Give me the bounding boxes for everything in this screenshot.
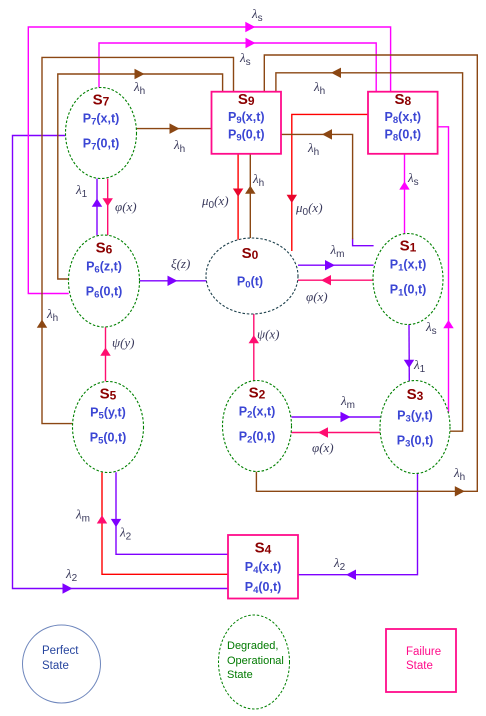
wire S1 to S9 (lambda h) brown riser bbox=[281, 134, 353, 239]
svg-text:φ(x): φ(x) bbox=[115, 199, 137, 214]
svg-text:ψ(x): ψ(x) bbox=[257, 327, 280, 342]
wire S2 to S3 (lambda m) bbox=[292, 416, 381, 418]
svg-text:P0(t): P0(t) bbox=[237, 275, 263, 291]
wire S7 to S8 (lambda s) second top path bbox=[99, 43, 376, 92]
state S8 bbox=[368, 91, 438, 154]
wire S7 to S6 (phi x) bbox=[107, 179, 109, 236]
svg-text:P2(0,t): P2(0,t) bbox=[239, 430, 276, 446]
svg-text:P3(y,t): P3(y,t) bbox=[397, 409, 433, 425]
state S6 bbox=[69, 235, 140, 327]
svg-text:State: State bbox=[406, 660, 433, 672]
arrowhead S7->S4 right bbox=[63, 583, 73, 593]
svg-text:P8(x,t): P8(x,t) bbox=[385, 110, 422, 126]
arrowhead S0->S9 up bbox=[245, 186, 255, 194]
svg-text:ψ(y): ψ(y) bbox=[112, 335, 135, 350]
arrowhead S5->S6 up bbox=[100, 348, 110, 356]
svg-text:P3(0,t): P3(0,t) bbox=[397, 433, 434, 449]
svg-text:State: State bbox=[42, 660, 69, 672]
svg-text:Operational: Operational bbox=[227, 655, 284, 667]
arrowhead S3->S4 left bbox=[346, 569, 356, 579]
svg-text:Degraded,: Degraded, bbox=[227, 640, 278, 652]
svg-text:S1: S1 bbox=[400, 238, 417, 255]
wire S5 to S9 (lambda h) outer-left path bbox=[42, 57, 234, 423]
svg-text:P5(y,t): P5(y,t) bbox=[90, 406, 126, 422]
arrowhead S1->S8 up bbox=[399, 181, 409, 189]
svg-text:S8: S8 bbox=[394, 91, 411, 108]
arrowhead S2->S0 up bbox=[249, 335, 259, 343]
state S7 bbox=[66, 88, 137, 179]
arrowhead S3->S8 up bbox=[443, 320, 453, 328]
svg-text:Perfect: Perfect bbox=[42, 645, 79, 657]
arrowhead S2->S3 right bbox=[341, 412, 351, 422]
arrowhead S6->S9 right bbox=[135, 69, 145, 79]
svg-text:P7(0,t): P7(0,t) bbox=[83, 137, 120, 153]
wire S0 to S1 (lambda m) bbox=[298, 264, 374, 266]
wire S1 to S9 purple elbow bbox=[353, 239, 374, 246]
wire S6 to S9 (lambda h) left path bbox=[58, 74, 223, 279]
arrowhead S7->S9 right bbox=[170, 123, 180, 133]
legend failure state rectangle bbox=[386, 629, 456, 692]
wire S3 to S8 (lambda s) right path bbox=[438, 127, 449, 413]
arrowhead S3->S2 left bbox=[318, 427, 328, 437]
wire S1 to S0 (phi x) bbox=[298, 279, 373, 281]
wire S8 to S0 (mu0 x) bbox=[292, 114, 368, 251]
svg-text:φ(x): φ(x) bbox=[312, 440, 334, 455]
wire S1 to S3 (lambda1) bbox=[408, 324, 410, 381]
arrowhead S0->S1 right bbox=[325, 260, 335, 270]
wire S3 to S9 (lambda h) right path bbox=[276, 73, 463, 431]
wire S2 to S9 (lambda h) outer-right path bbox=[256, 55, 477, 491]
state S9 bbox=[212, 91, 282, 154]
svg-text:φ(x): φ(x) bbox=[306, 289, 328, 304]
wire S5 to S6 (psi y) bbox=[105, 327, 107, 381]
arrowhead S7->S6 down bbox=[102, 198, 112, 206]
wire S3 to S2 (phi x) bbox=[292, 432, 381, 434]
wire S9 to S0 (mu0 x) bbox=[237, 154, 239, 240]
arrowhead S8->S0 down bbox=[287, 195, 297, 203]
arrowhead S7->S8 right bbox=[246, 38, 256, 48]
svg-text:P5(0,t): P5(0,t) bbox=[90, 431, 127, 447]
svg-text:S7: S7 bbox=[93, 92, 110, 109]
arrowhead S6->S7 up bbox=[92, 199, 102, 207]
svg-text:P8(0,t): P8(0,t) bbox=[385, 127, 422, 143]
state S2 bbox=[223, 381, 292, 472]
arrowhead S1->S0 left bbox=[321, 275, 331, 285]
svg-text:S9: S9 bbox=[238, 91, 255, 108]
state S5 bbox=[73, 382, 144, 473]
state S3 bbox=[380, 381, 450, 474]
svg-text:P7(x,t): P7(x,t) bbox=[83, 112, 120, 128]
arrowhead S6->S8 right bbox=[245, 22, 255, 32]
arrowhead S1->S3 down bbox=[404, 360, 414, 368]
svg-text:S3: S3 bbox=[407, 386, 424, 403]
svg-text:P4(x,t): P4(x,t) bbox=[245, 560, 282, 576]
svg-text:ξ(z): ξ(z) bbox=[171, 256, 190, 271]
arrowhead S4->S5 up bbox=[97, 515, 107, 523]
wire S6 to S8 (lambda s) outer top path bbox=[28, 27, 390, 294]
svg-text:S4: S4 bbox=[255, 539, 272, 556]
wire S2 to S0 (psi x) bbox=[253, 314, 255, 381]
wire S6 to S0 (xi z) bbox=[140, 280, 207, 282]
arrowhead S2->S9 right bbox=[455, 486, 465, 496]
state S0 bbox=[206, 238, 298, 314]
svg-text:P9(x,t): P9(x,t) bbox=[228, 110, 265, 126]
svg-text:S2: S2 bbox=[249, 385, 266, 402]
wire S7 to S4 (lambda2) far-left path bbox=[13, 136, 229, 589]
state S1 bbox=[373, 234, 443, 325]
arrowhead S1->S9 left bbox=[322, 129, 332, 139]
svg-text:P1(x,t): P1(x,t) bbox=[390, 258, 427, 274]
wire S3 to S4 (lambda2) bbox=[298, 474, 418, 575]
state S4 bbox=[228, 535, 298, 599]
svg-text:S6: S6 bbox=[96, 240, 113, 257]
arrowhead S5->S9 up bbox=[37, 320, 47, 328]
legend degraded operational state ellipse bbox=[219, 615, 290, 709]
svg-text:Failure: Failure bbox=[406, 646, 441, 658]
arrowhead S5->S4 down bbox=[111, 519, 121, 527]
wire S5 to S4 (lambda2) bbox=[116, 472, 228, 554]
svg-text:P4(0,t): P4(0,t) bbox=[245, 580, 282, 596]
wire S0 to S9 (lambda h) bbox=[249, 154, 251, 240]
svg-text:State: State bbox=[227, 669, 253, 681]
legend perfect state circle bbox=[23, 625, 101, 703]
svg-text:P1(0,t): P1(0,t) bbox=[390, 283, 427, 299]
wire S1 to S8 (lambda s) bbox=[404, 154, 406, 234]
svg-text:P6(z,t): P6(z,t) bbox=[86, 260, 122, 276]
wire S4 to S5 (lambda m) bbox=[102, 472, 228, 574]
svg-text:S0: S0 bbox=[242, 245, 259, 262]
svg-text:P6(0,t): P6(0,t) bbox=[86, 285, 123, 301]
svg-text:P2(x,t): P2(x,t) bbox=[239, 405, 276, 421]
wire S7 to S9 (lambda h) bbox=[137, 128, 212, 130]
arrowhead S9->S0 down bbox=[233, 189, 243, 197]
svg-text:P9(0,t): P9(0,t) bbox=[228, 127, 265, 143]
wire S6 to S7 (lambda1) bbox=[96, 179, 98, 236]
svg-text:S5: S5 bbox=[100, 386, 117, 403]
arrowhead S6->S0 right bbox=[168, 276, 178, 286]
arrowhead S3->S9 left bbox=[331, 68, 341, 78]
